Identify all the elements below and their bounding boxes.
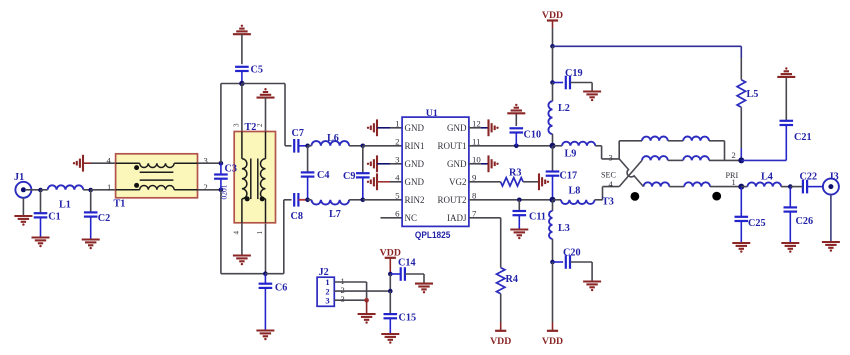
svg-text:1: 1 — [107, 182, 111, 192]
svg-text:4: 4 — [233, 231, 241, 235]
power VDD R4 — [490, 331, 511, 347]
T3 bottom winding — [644, 182, 742, 186]
node D — [219, 188, 224, 193]
node S — [738, 184, 744, 190]
wire M-N — [552, 46, 554, 82]
IC U1 — [402, 108, 469, 240]
inductor L3 — [549, 200, 570, 262]
capacitor C5 — [235, 65, 263, 84]
ground C20 — [583, 282, 601, 292]
svg-text:C26: C26 — [796, 216, 814, 227]
svg-text:C11: C11 — [529, 212, 546, 223]
ground J2 — [358, 314, 376, 324]
capacitor C21 — [780, 77, 812, 160]
svg-text:3: 3 — [233, 123, 241, 127]
svg-text:3: 3 — [341, 294, 345, 304]
capacitor C9 — [343, 146, 370, 200]
svg-text:ROUT1: ROUT1 — [438, 141, 467, 151]
T3 top winding — [619, 136, 724, 160]
capacitor C19 — [553, 68, 593, 92]
pin name RIN2 left 199.8 — [405, 195, 425, 205]
ground U1-pin3 — [367, 155, 390, 172]
svg-text:C25: C25 — [748, 218, 766, 229]
pin 4 T1 — [107, 156, 112, 166]
pin 2 T2 — [256, 123, 264, 127]
capacitor C15 — [384, 291, 417, 334]
svg-text:7: 7 — [472, 208, 477, 218]
node P — [550, 197, 556, 203]
pin 1 J2 — [341, 276, 345, 286]
transformer T1 — [114, 154, 198, 210]
inductor L6 — [308, 133, 363, 146]
ground C15 — [381, 334, 399, 344]
node E — [239, 81, 244, 86]
ground top C21 — [777, 67, 795, 77]
svg-text:C17: C17 — [560, 171, 578, 182]
capacitor C20 — [553, 248, 593, 282]
wire B-T1 — [91, 189, 116, 191]
capacitor C8 — [291, 193, 308, 222]
ground top C5 — [233, 25, 251, 35]
svg-text:8: 8 — [472, 190, 477, 200]
ground C2 — [82, 240, 100, 250]
wire V-W — [389, 274, 391, 291]
svg-text:GND: GND — [447, 159, 467, 169]
ground U1-pin1 — [367, 119, 390, 136]
wire T2-right-lead — [265, 98, 267, 274]
pin 2 T1 — [204, 182, 208, 192]
power VDD bottom — [542, 331, 563, 347]
svg-text:L3: L3 — [558, 223, 570, 234]
svg-text:L8: L8 — [569, 185, 581, 196]
svg-text:0201: 0201 — [220, 184, 229, 199]
svg-text:C15: C15 — [399, 313, 417, 324]
resistor R3 — [469, 168, 539, 187]
svg-text:QPL1825: QPL1825 — [415, 230, 451, 240]
pin 4 U1 — [395, 172, 400, 182]
svg-text:ROUT2: ROUT2 — [438, 195, 467, 205]
capacitor C4 — [301, 146, 330, 200]
wire top-run — [553, 45, 742, 47]
svg-text:C19: C19 — [565, 68, 583, 79]
pin name IADJ right 217.8 — [447, 213, 467, 223]
ground U1-pin4 — [367, 173, 390, 190]
svg-text:2: 2 — [395, 136, 399, 146]
wire T2pin4-gnd — [241, 223, 243, 256]
connector J1 — [14, 172, 41, 198]
pin name ROUT2 right 199.8 — [438, 195, 467, 205]
inductor L5 — [737, 46, 758, 160]
pin 1 T3 — [732, 177, 736, 187]
svg-text:5: 5 — [395, 190, 400, 200]
wire VDD-stem — [552, 21, 554, 47]
wire J1-gnd — [22, 198, 24, 216]
wire VDDmid-stem — [389, 258, 391, 274]
svg-text:L7: L7 — [329, 209, 341, 220]
node N — [550, 80, 555, 85]
svg-text:3: 3 — [325, 295, 329, 305]
T3 diag pin3-bottom — [619, 159, 643, 187]
pin 2 J2 — [341, 285, 345, 295]
node U — [364, 298, 369, 303]
inductor L9 — [554, 142, 602, 160]
svg-text:6: 6 — [395, 208, 400, 218]
wire IADJ-R4 — [469, 218, 501, 268]
pin 1 T1 — [107, 182, 111, 192]
wire pin10 — [469, 163, 489, 165]
node R — [738, 157, 744, 163]
node W — [388, 289, 393, 294]
wire T1pin3-C — [198, 162, 221, 164]
capacitor C3 — [214, 163, 237, 199]
wire J-RIN2 — [363, 199, 402, 201]
ground C19 — [583, 92, 601, 102]
pin name GND left 163.8 — [405, 159, 425, 169]
pin 3 T3 — [609, 152, 613, 162]
wire ROUT1 — [469, 145, 554, 147]
polarity dot right — [712, 192, 721, 201]
svg-text:C20: C20 — [563, 248, 581, 259]
svg-text:C7: C7 — [292, 128, 304, 139]
svg-text:T1: T1 — [114, 199, 126, 210]
label T3 — [602, 197, 614, 208]
ground U1-pin10 — [489, 155, 499, 172]
pin 9 U1 — [472, 172, 477, 182]
label SEC — [601, 171, 617, 180]
svg-text:RIN1: RIN1 — [405, 141, 425, 151]
svg-text:9: 9 — [472, 172, 477, 182]
wire C8-feed — [265, 200, 291, 274]
svg-text:C4: C4 — [317, 170, 329, 181]
pin 4 T3 — [609, 179, 614, 189]
pin name GND right 127.8 — [447, 123, 467, 133]
node F — [263, 271, 268, 276]
ground T1-pin4 — [73, 155, 91, 172]
svg-text:10: 10 — [472, 154, 481, 164]
node O — [550, 143, 556, 149]
svg-text:C9: C9 — [343, 171, 355, 182]
svg-text:1: 1 — [732, 177, 736, 187]
pin 10 U1 — [472, 154, 481, 164]
wire L8-T3pin4 — [603, 187, 620, 200]
wire L9-T3pin3 — [602, 146, 620, 159]
svg-text:C6: C6 — [275, 283, 287, 294]
capacitor C6 — [259, 274, 288, 331]
wire T1pin2-D — [198, 189, 221, 191]
node V — [388, 272, 393, 277]
node Q — [550, 260, 555, 265]
pin 8 U1 — [472, 190, 477, 200]
ground J1 — [14, 216, 32, 226]
node K — [514, 144, 519, 149]
pin 1 U1 — [395, 118, 399, 128]
capacitor C1 — [34, 190, 61, 238]
svg-text:L1: L1 — [59, 200, 71, 211]
svg-text:3: 3 — [395, 154, 400, 164]
svg-text:VDD: VDD — [542, 10, 563, 21]
node H — [361, 144, 366, 149]
pin name VG2 right 181.8 — [449, 177, 467, 187]
svg-text:C8: C8 — [291, 211, 303, 222]
wire J2-pin3 — [334, 299, 366, 301]
inductor L7 — [308, 200, 363, 220]
pin 2 U1 — [395, 136, 399, 146]
pin 3 J2 — [341, 294, 345, 304]
ground C1 — [32, 238, 50, 248]
node T — [788, 184, 793, 189]
svg-text:IADJ: IADJ — [447, 213, 467, 223]
wire J3-gnd — [830, 195, 832, 242]
svg-text:VDD: VDD — [542, 336, 563, 347]
svg-text:U1: U1 — [426, 108, 438, 119]
wire J2-pin2 — [334, 290, 390, 292]
wire J2-pin1 — [334, 282, 366, 300]
T3 middle winding — [642, 156, 741, 160]
pin 2 T3 — [732, 150, 736, 160]
node L — [517, 198, 522, 203]
svg-text:T2: T2 — [245, 122, 257, 133]
capacitor C2 — [84, 190, 110, 240]
inductor L2 — [548, 83, 569, 146]
ground top C10 — [507, 104, 525, 114]
transformer T2 — [234, 122, 275, 223]
label PRI — [726, 171, 739, 180]
capacitor C22 — [790, 172, 823, 194]
node J — [361, 198, 366, 203]
capacitor C26 — [784, 187, 814, 243]
node M — [550, 44, 555, 49]
power VDD top — [542, 10, 563, 21]
svg-text:C14: C14 — [398, 257, 416, 268]
node G — [305, 144, 310, 149]
wire gnd-T1pin4 — [91, 162, 116, 164]
pin 4 T2 — [233, 231, 241, 235]
svg-text:12: 12 — [472, 118, 481, 128]
svg-text:11: 11 — [472, 136, 480, 146]
svg-text:R4: R4 — [506, 274, 518, 285]
svg-text:1: 1 — [395, 118, 399, 128]
ground C6 — [256, 331, 274, 341]
svg-text:C5: C5 — [251, 65, 263, 76]
wire R4-VDD — [500, 294, 502, 331]
pin 7 U1 — [472, 208, 477, 218]
node I — [305, 198, 310, 203]
svg-text:2: 2 — [256, 123, 264, 127]
ground U1-pin12 — [489, 119, 499, 136]
capacitor C10 — [510, 113, 542, 146]
pin name RIN1 left 145.8 — [405, 141, 425, 151]
pin name GND left 127.8 — [405, 123, 425, 133]
svg-text:VG2: VG2 — [449, 177, 467, 187]
inductor L4 — [741, 172, 790, 187]
capacitor C25 — [735, 187, 766, 243]
resistor R4 — [497, 268, 518, 294]
ground R3 — [539, 173, 549, 190]
pin 3 T2 — [233, 123, 241, 127]
node C — [219, 161, 224, 166]
svg-text:GND: GND — [405, 159, 425, 169]
polarity dot left — [631, 192, 640, 201]
pin 6 U1 — [395, 208, 400, 218]
wire T2-left-lead — [241, 84, 243, 223]
connector J2 — [317, 267, 334, 306]
svg-text:L5: L5 — [747, 89, 759, 100]
T3 diag pin4-mid — [619, 160, 642, 186]
wire U-gnd — [366, 300, 368, 314]
pin 1 T2 — [256, 231, 264, 235]
connector J3 — [823, 172, 839, 195]
wire pin1 — [390, 127, 402, 129]
capacitor C17 — [546, 146, 577, 200]
inductor L8 — [554, 185, 603, 204]
svg-text:C10: C10 — [524, 130, 542, 141]
pin name NC left 217.8 — [405, 213, 418, 223]
svg-text:3: 3 — [609, 152, 613, 162]
svg-text:2: 2 — [204, 182, 208, 192]
wire gnd-C5 — [241, 34, 243, 64]
ground top T2pin2 — [257, 88, 275, 98]
pin name GND left 181.8 — [405, 177, 425, 187]
svg-text:C21: C21 — [794, 132, 812, 143]
wire pin4 — [390, 181, 402, 183]
pin 3 T1 — [204, 156, 208, 166]
capacitor C11 — [513, 200, 546, 230]
node A — [38, 188, 43, 193]
wire E-C7 — [242, 84, 292, 146]
svg-text:3: 3 — [204, 156, 208, 166]
pin 5 U1 — [395, 190, 400, 200]
ground C25 — [732, 243, 750, 253]
inductor L1 — [41, 185, 91, 210]
svg-text:L2: L2 — [558, 103, 570, 114]
svg-text:GND: GND — [405, 177, 425, 187]
svg-text:L9: L9 — [565, 149, 577, 160]
capacitor C7 — [292, 128, 308, 153]
wire Q-VDD — [552, 262, 554, 331]
svg-text:C3: C3 — [225, 164, 237, 175]
ground C11 — [510, 230, 528, 240]
wire R-C21 — [741, 159, 786, 161]
pin 12 U1 — [472, 118, 481, 128]
ground C14 — [415, 284, 433, 294]
wire pin6 NC — [381, 217, 403, 219]
svg-text:C1: C1 — [48, 212, 60, 223]
power VDD mid — [380, 247, 401, 258]
svg-text:L4: L4 — [761, 172, 773, 183]
svg-text:J1: J1 — [14, 172, 24, 183]
ground J3 — [822, 242, 840, 252]
svg-text:T3: T3 — [602, 197, 614, 208]
svg-text:J3: J3 — [829, 172, 839, 183]
ground T2-pin4 — [233, 256, 251, 266]
capacitor C14 — [390, 257, 424, 283]
svg-text:2: 2 — [732, 150, 736, 160]
wire H-RIN1 — [363, 145, 402, 147]
pin name ROUT1 right 145.8 — [438, 141, 467, 151]
svg-text:4: 4 — [395, 172, 400, 182]
node B — [88, 188, 93, 193]
wire pin3 — [390, 163, 402, 165]
svg-text:C2: C2 — [98, 213, 110, 224]
wire bypass — [221, 84, 266, 274]
svg-text:RIN2: RIN2 — [405, 195, 425, 205]
wire ROUT2 — [469, 199, 554, 201]
wire pin12 — [469, 127, 489, 129]
svg-text:GND: GND — [405, 123, 425, 133]
svg-text:L6: L6 — [327, 133, 339, 144]
svg-text:C22: C22 — [800, 172, 818, 183]
svg-text:R3: R3 — [509, 168, 521, 179]
svg-text:1: 1 — [256, 231, 264, 235]
pin 3 U1 — [395, 154, 400, 164]
svg-text:NC: NC — [405, 213, 418, 223]
pin name GND right 163.8 — [447, 159, 467, 169]
svg-text:GND: GND — [447, 123, 467, 133]
ground C26 — [781, 243, 799, 253]
pin 11 U1 — [472, 136, 480, 146]
svg-text:VDD: VDD — [490, 336, 511, 347]
